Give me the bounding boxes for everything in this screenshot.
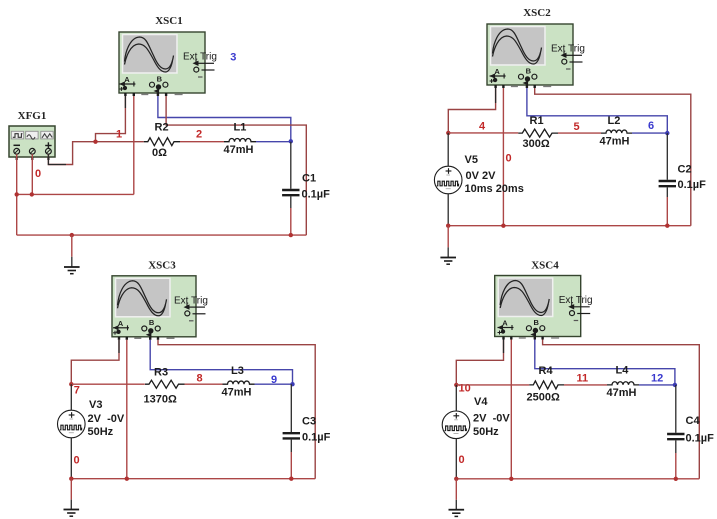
ground circuit 4 [449, 479, 465, 517]
svg-text:9: 9 [271, 374, 277, 386]
wire scope A- to net 0 [126, 340, 128, 479]
svg-text:47mH: 47mH [600, 136, 630, 148]
source V5 [434, 166, 462, 194]
svg-text:L1: L1 [234, 122, 247, 134]
wire node 6 to C2 [666, 133, 668, 180]
svg-text:50Hz: 50Hz [88, 426, 114, 438]
junction node 3 [289, 139, 293, 143]
svg-text:Ext Trig: Ext Trig [183, 52, 217, 63]
wire scope A+ to node 1 [96, 96, 126, 142]
wire scope A+ to node 7 [71, 340, 119, 383]
wire C1 to ground rail [290, 196, 292, 208]
svg-text:0V 2V: 0V 2V [466, 170, 497, 182]
junction net0 rail c3 [125, 477, 129, 481]
svg-text:0.1µF: 0.1µF [302, 432, 331, 444]
ground rail circuit 1 [17, 234, 307, 236]
wire scope B+ to node 9 (blue) [150, 340, 292, 384]
svg-text:B: B [157, 74, 163, 83]
junction net0 common [30, 192, 34, 196]
wire C2 to ground rail [666, 187, 668, 197]
junction net0 rail [501, 224, 505, 228]
capacitor C4 [667, 434, 684, 439]
ground rail circuit 2 [448, 225, 691, 227]
svg-text:A: A [118, 319, 124, 328]
wire scope A+ to node 10 [456, 340, 503, 384]
wire node 5 R1 to L2 [558, 132, 601, 134]
wire node 11 R4 to L4 [564, 384, 607, 386]
oscilloscope XSC2 [487, 24, 585, 88]
wire V5 to ground rail [447, 194, 449, 226]
resistor R1 [518, 129, 558, 137]
svg-text:XSC2: XSC2 [523, 7, 551, 19]
svg-text:0: 0 [35, 168, 41, 180]
svg-text:A: A [502, 319, 508, 328]
svg-text:XFG1: XFG1 [18, 110, 47, 122]
junction C1 rail [289, 233, 293, 237]
ground circuit 3 [64, 479, 80, 517]
wire node 10 to V4 [455, 385, 457, 411]
svg-text:0.1µF: 0.1µF [678, 179, 707, 191]
svg-text:2V -0V: 2V -0V [88, 413, 125, 425]
svg-text:7: 7 [74, 385, 80, 397]
wire node 12 to C4 [675, 385, 677, 433]
svg-text:B: B [526, 66, 532, 75]
wire node 10 to R4 [456, 384, 529, 386]
svg-text:1: 1 [116, 129, 122, 141]
svg-text:0: 0 [459, 454, 465, 466]
svg-text:47mH: 47mH [224, 144, 254, 156]
source V3 [58, 410, 86, 438]
net 0 rail circuit 1 [17, 193, 134, 195]
svg-text:300Ω: 300Ω [523, 138, 550, 150]
wire scope B- to net 0 right return [543, 340, 700, 479]
svg-text:XSC3: XSC3 [148, 259, 176, 271]
inductor L4 [607, 382, 639, 385]
oscilloscope XSC1 [119, 32, 217, 96]
junction C2 rail [665, 224, 669, 228]
svg-text:C2: C2 [678, 164, 692, 176]
oscilloscope XSC4 [495, 276, 593, 340]
capacitor C2 [659, 181, 676, 186]
junction V4 rail [454, 477, 458, 481]
junction node 6 [665, 131, 669, 135]
wire scope A- to net 0 [502, 88, 504, 226]
inductor L1 [224, 139, 256, 142]
svg-text:5: 5 [574, 121, 580, 133]
svg-text:R1: R1 [530, 115, 544, 127]
svg-text:B: B [149, 318, 155, 327]
wire scope B+ to node 12 (blue) [535, 340, 675, 385]
junction node 10 [454, 383, 458, 387]
wire node 3 to C1 [290, 142, 292, 189]
svg-text:R4: R4 [539, 365, 554, 377]
wire scope B- to net 0 right return [158, 340, 315, 479]
wire scope B- to net 0 right return [535, 88, 691, 226]
junction node 12 [673, 383, 677, 387]
junction net0 minus [15, 192, 19, 196]
svg-text:A: A [494, 67, 500, 76]
svg-text:12: 12 [651, 373, 663, 385]
junction net0 rail c4 [509, 477, 513, 481]
svg-text:B: B [533, 318, 539, 327]
capacitor C1 [282, 190, 299, 195]
resistor R3 [145, 380, 185, 388]
svg-text:C1: C1 [302, 173, 316, 185]
wire C4 to ground rail [675, 440, 677, 453]
svg-text:8: 8 [197, 373, 203, 385]
svg-text:Ext Trig: Ext Trig [551, 44, 585, 55]
resistor R4 [529, 381, 564, 389]
svg-text:2: 2 [196, 129, 202, 141]
svg-text:47mH: 47mH [222, 387, 252, 399]
svg-text:3: 3 [230, 52, 236, 64]
svg-text:1370Ω: 1370Ω [144, 394, 177, 406]
svg-text:6: 6 [648, 120, 654, 132]
inductor L2 [601, 130, 632, 133]
wire scope B+ to node 6 (blue) [527, 88, 667, 132]
inductor L3 [223, 381, 255, 384]
junction V5 rail [446, 224, 450, 228]
svg-text:C3: C3 [302, 416, 316, 428]
svg-text:V3: V3 [89, 399, 102, 411]
resistor R2 [144, 138, 180, 146]
wire node 9 to C3 [290, 384, 292, 432]
junction C4 rail [674, 477, 678, 481]
wire scope A- to net 0 [133, 96, 135, 194]
function generator XFG1 [9, 126, 55, 160]
wire L1 to node 3 junction (blue) [256, 141, 291, 143]
svg-text:0: 0 [506, 153, 512, 165]
wire L4 to node 12 junction (blue) [639, 384, 675, 386]
wire node 7 to R3 [71, 383, 145, 385]
junction ground stem [70, 233, 74, 237]
svg-text:L4: L4 [616, 365, 630, 377]
svg-text:0.1µF: 0.1µF [302, 189, 331, 201]
wire node 4 to V5 [447, 133, 449, 166]
junction node 9 [290, 382, 294, 386]
oscilloscope XSC3 [112, 276, 208, 340]
wire XFG1 minus to ground rail [16, 154, 18, 235]
capacitor C3 [283, 433, 300, 438]
wire XFG1 common to net 0 rail [31, 154, 33, 194]
svg-text:C4: C4 [686, 415, 701, 427]
wire L3 to node 9 junction (blue) [255, 383, 293, 385]
wire node 8 R3 to L3 [185, 383, 223, 385]
svg-text:2500Ω: 2500Ω [527, 392, 560, 404]
wire node 4 to R1 [448, 132, 518, 134]
wire scope A+ to node 4 [448, 88, 495, 132]
svg-text:Ext Trig: Ext Trig [559, 295, 593, 306]
svg-text:XSC1: XSC1 [155, 15, 183, 27]
ground circuit 2 [440, 226, 456, 265]
svg-text:2V -0V: 2V -0V [473, 413, 510, 425]
wire L2 to node 6 junction (blue) [632, 132, 667, 134]
svg-text:11: 11 [577, 373, 589, 385]
svg-text:47mH: 47mH [607, 387, 637, 399]
wire V4 to ground rail [455, 439, 457, 479]
svg-text:10ms 20ms: 10ms 20ms [465, 183, 524, 195]
junction V3 rail [69, 477, 73, 481]
svg-text:L2: L2 [608, 115, 621, 127]
wire XFG1 plus to node 1 [48, 142, 143, 165]
svg-text:A: A [124, 75, 130, 84]
svg-text:V4: V4 [474, 396, 488, 408]
wire node 7 to V3 [70, 384, 72, 410]
svg-text:V5: V5 [465, 154, 478, 166]
wire scope B+ to node 3 (blue) [158, 96, 291, 140]
svg-text:R3: R3 [154, 367, 168, 379]
wire scope A- to net 0 [510, 340, 512, 479]
svg-text:L3: L3 [231, 365, 244, 377]
wire node 2 R2 to L1 [180, 141, 224, 143]
source V4 [442, 411, 470, 439]
svg-text:4: 4 [479, 121, 486, 133]
wire V3 to ground rail [70, 438, 72, 479]
junction node 7 [69, 382, 73, 386]
wire C3 to ground rail [290, 440, 292, 452]
ground rail circuit 4 [456, 478, 699, 480]
svg-text:50Hz: 50Hz [473, 426, 499, 438]
junction C3 rail [289, 477, 293, 481]
svg-text:0: 0 [74, 455, 80, 467]
svg-text:Ext Trig: Ext Trig [174, 295, 208, 306]
svg-text:0Ω: 0Ω [152, 147, 167, 159]
wire scope B- to net 0 right return [166, 96, 306, 235]
junction node 1 [93, 140, 97, 144]
svg-text:R2: R2 [155, 122, 169, 134]
svg-text:0.1µF: 0.1µF [686, 433, 715, 445]
svg-text:XSC4: XSC4 [531, 259, 559, 271]
ground circuit 1 [64, 235, 80, 274]
ground rail circuit 3 [71, 478, 315, 480]
junction node 4 [446, 131, 450, 135]
